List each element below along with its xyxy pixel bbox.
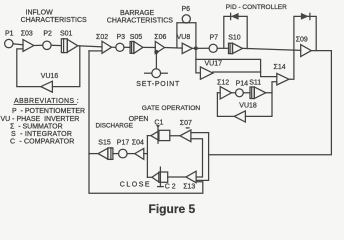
svg-text:VU8: VU8 [177, 34, 191, 41]
svg-text:CLOSE: CLOSE [120, 181, 151, 188]
svg-text:PID - CONTROLLER: PID - CONTROLLER [226, 4, 287, 11]
svg-text:S10: S10 [228, 35, 241, 42]
svg-text:ABBREVIATIONS :: ABBREVIATIONS : [14, 98, 79, 105]
svg-text:VU18: VU18 [239, 102, 257, 109]
svg-text:Σ07: Σ07 [180, 120, 192, 127]
svg-text:P17: P17 [117, 140, 130, 147]
svg-text:Σ09: Σ09 [296, 37, 308, 44]
svg-text:GATE OPERATION: GATE OPERATION [142, 105, 201, 112]
svg-text:Σ06: Σ06 [154, 34, 166, 41]
svg-text:Σ12: Σ12 [217, 79, 229, 86]
svg-text:Σ - SUMMATOR: Σ - SUMMATOR [10, 123, 63, 130]
svg-text:VU16: VU16 [41, 73, 59, 80]
svg-text:P3: P3 [117, 34, 126, 41]
svg-text:S05: S05 [130, 34, 143, 41]
svg-text:P14: P14 [236, 81, 249, 88]
svg-text:C - COMPARATOR: C - COMPARATOR [10, 139, 74, 146]
svg-text:P - POTENTIOMETER: P - POTENTIOMETER [12, 108, 85, 115]
svg-text:P2: P2 [43, 30, 52, 37]
svg-text:C1: C1 [154, 119, 163, 126]
svg-text:P1: P1 [5, 30, 14, 37]
svg-text:Figure 5: Figure 5 [149, 202, 196, 216]
svg-text:BARRAGE: BARRAGE [120, 10, 155, 17]
svg-text:INFLOW: INFLOW [26, 10, 54, 17]
svg-text:Σ04: Σ04 [132, 140, 144, 147]
svg-text:Σ03: Σ03 [21, 30, 33, 37]
svg-text:S11: S11 [249, 80, 261, 87]
svg-text:S15: S15 [98, 140, 111, 147]
svg-text:P7: P7 [210, 35, 219, 42]
svg-text:P6: P6 [182, 6, 191, 13]
svg-text:Σ13: Σ13 [183, 183, 195, 190]
svg-text:Σ02: Σ02 [96, 34, 108, 41]
svg-text:CHARACTERISTICS: CHARACTERISTICS [21, 17, 87, 24]
svg-text:CHARACTERISTICS: CHARACTERISTICS [107, 18, 173, 25]
svg-text:SET-POINT: SET-POINT [136, 81, 180, 88]
svg-text:DISCHARGE: DISCHARGE [96, 123, 133, 130]
svg-text:S - INTEGRATOR: S - INTEGRATOR [11, 131, 72, 138]
svg-text:VU - PHASE INVERTER: VU - PHASE INVERTER [1, 116, 80, 123]
svg-text:S01: S01 [60, 30, 73, 37]
svg-text:C 2: C 2 [165, 183, 176, 190]
svg-text:Σ14: Σ14 [274, 64, 286, 71]
svg-text:VU17: VU17 [205, 61, 223, 68]
